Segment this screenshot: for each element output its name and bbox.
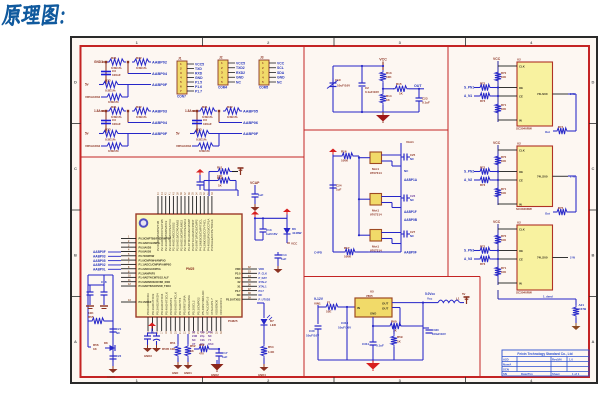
- resistor R52 labels: [190, 344, 196, 353]
- page title 原理图:: [2, 5, 66, 26]
- svg-text:GND3: GND3: [144, 354, 152, 358]
- net labels region D col2: [404, 210, 418, 222]
- region divider horizontal middle y130: [304, 129, 448, 131]
- svg-text:C310: C310: [341, 321, 349, 325]
- svg-text:C22: C22: [116, 354, 122, 358]
- svg-text:OUT: OUT: [382, 302, 389, 306]
- svg-text:9707314: 9707314: [370, 171, 382, 175]
- capacitor C31 labels: [338, 321, 351, 330]
- svg-text:AABP0F: AABP0F: [152, 132, 168, 136]
- capacitor C14 labels: [281, 253, 287, 261]
- C18 label: [101, 280, 107, 284]
- svg-text:IN: IN: [519, 281, 522, 285]
- svg-text:C1C: C1C: [335, 78, 342, 82]
- svg-text:C: C: [592, 166, 595, 171]
- svg-text:OE: OE: [519, 249, 523, 253]
- svg-text:P5.3/CMPO2: P5.3/CMPO2: [196, 297, 200, 315]
- IC U4 body: [510, 221, 575, 295]
- svg-text:R73: R73: [480, 262, 486, 266]
- MCU U1 bottom pin names: [146, 290, 223, 315]
- svg-text:SC3040RW: SC3040RW: [516, 207, 532, 211]
- svg-text:P0.4/ADV4/AMP0-: P0.4/ADV4/AMP0-: [139, 241, 161, 245]
- capacitor C7: [252, 185, 264, 204]
- svg-text:R12: R12: [217, 176, 223, 180]
- input resistor A U4: [474, 245, 498, 254]
- svg-text:R33: R33: [105, 79, 111, 83]
- svg-text:R1c: R1c: [208, 330, 213, 334]
- resistor R51 labels: [170, 341, 176, 351]
- svg-text:CLK: CLK: [519, 64, 525, 68]
- svg-text:AABP0B: AABP0B: [404, 218, 418, 222]
- capacitor C32: [362, 342, 384, 362]
- LED D7 labels: [270, 319, 277, 327]
- svg-text:OSC: OSC: [208, 342, 214, 346]
- ground below R76: [572, 323, 581, 330]
- svg-text:P0.0/AD0/RXD3: P0.0/AD0/RXD3: [146, 293, 150, 315]
- svg-text:LED: LED: [270, 323, 277, 327]
- svg-text:1uF: 1uF: [222, 355, 228, 359]
- svg-text:VIN1: VIN1: [314, 302, 321, 306]
- wire left cluster: [88, 275, 113, 362]
- svg-text:P1.2/ADC2/A0P0A: P1.2/ADC2/A0P0A: [139, 267, 161, 271]
- svg-text:VCC: VCC: [493, 220, 501, 224]
- svg-text:GND: GND: [172, 371, 178, 375]
- svg-text:S_PN2: S_PN2: [464, 170, 474, 174]
- svg-text:COM5: COM5: [259, 86, 268, 90]
- MCU U1 right pin numbers: [248, 266, 251, 299]
- svg-text:A_N3: A_N3: [464, 257, 472, 261]
- title block company text: [517, 352, 572, 356]
- border zone labels: [74, 40, 595, 383]
- LED D7 arrows: [267, 315, 272, 320]
- crystal X2 label cluster: [192, 330, 214, 346]
- svg-text:NC: NC: [116, 331, 120, 335]
- wire loop region C: [333, 65, 419, 113]
- capacitor C23 labels: [422, 97, 430, 105]
- svg-text:A: A: [592, 339, 595, 344]
- svg-text:C37B: C37B: [579, 307, 588, 311]
- ground below R52: [184, 362, 193, 375]
- svg-text:P1M25: P1M25: [228, 319, 238, 323]
- resistor pullup B U4: [495, 265, 507, 278]
- VCC label U4: [493, 220, 501, 285]
- svg-text:470: 470: [199, 352, 204, 356]
- MCU U1 body: [136, 214, 242, 317]
- svg-text:AABP04: AABP04: [152, 72, 168, 76]
- svg-text:AABP0F: AABP0F: [152, 83, 168, 87]
- svg-text:D: D: [74, 80, 77, 85]
- capacitor C33: [423, 328, 446, 336]
- resistor pullup A U2: [495, 70, 507, 83]
- svg-text:GND: GND: [370, 312, 376, 316]
- svg-text:VCC: VCC: [379, 58, 387, 62]
- connector J3: [259, 56, 276, 90]
- connector J3 net labels: [277, 61, 285, 84]
- VCC rail region C: [382, 62, 384, 71]
- capacitor C2: [359, 83, 380, 94]
- resistor R53: [194, 346, 216, 352]
- svg-text:Rev5/N: Rev5/N: [552, 358, 561, 362]
- svg-text:A: A: [74, 339, 77, 344]
- svg-text:U2: U2: [517, 58, 521, 62]
- MCU U1 bottom pin numbers: [147, 331, 223, 334]
- svg-text:1.0K: 1.0K: [268, 350, 275, 354]
- input resistor B U4: [474, 256, 498, 266]
- power ground symbol: [366, 360, 380, 371]
- resistor pullup A U4: [495, 233, 507, 246]
- svg-text:U2: U2: [517, 221, 521, 225]
- svg-text:P0.7/CMP0W: P0.7/CMP0W: [139, 254, 155, 258]
- svg-text:0.1uF: 0.1uF: [376, 344, 384, 348]
- resistor R14 vertical: [380, 92, 392, 112]
- svg-text:VCC/AVCC1: VCC/AVCC1: [219, 298, 223, 315]
- svg-text:D: D: [592, 80, 595, 85]
- svg-text:B: B: [74, 253, 77, 258]
- svg-text:J2: J2: [219, 56, 223, 60]
- VAA label region D: [406, 140, 414, 144]
- ground bottom left cluster: [107, 366, 118, 379]
- svg-text:IN: IN: [519, 202, 522, 206]
- svg-text:A2D: A2D: [503, 358, 509, 362]
- VCC net label right of MCU: [287, 242, 298, 246]
- 5V labels: [425, 292, 435, 301]
- svg-text:P_UTXD2: P_UTXD2: [259, 297, 271, 301]
- svg-text:NC: NC: [410, 198, 414, 202]
- capacitor C22: [110, 351, 122, 366]
- svg-text:AABP02: AABP02: [152, 61, 167, 65]
- svg-text:PM25: PM25: [186, 267, 195, 271]
- wire LED column: [257, 303, 264, 318]
- VCC label U2: [493, 57, 501, 122]
- resistor R54 vertical: [261, 344, 267, 364]
- svg-text:U5: U5: [370, 290, 374, 294]
- svg-text:P0.5/AD5/T3: P0.5/AD5/T3: [169, 297, 173, 315]
- svg-text:5.0Vcc: 5.0Vcc: [425, 292, 435, 296]
- svg-text:R31: R31: [202, 105, 208, 109]
- svg-text:P0.4/AD4/T3CLK: P0.4/AD4/T3CLK: [164, 292, 168, 315]
- svg-text:X2: X2: [237, 280, 241, 284]
- title block frame: [502, 350, 589, 376]
- svg-text:X1: X1: [237, 284, 241, 288]
- svg-text:GND3: GND3: [94, 60, 103, 64]
- svg-text:74LS00: 74LS00: [537, 92, 548, 96]
- svg-text:1uF: 1uF: [281, 257, 287, 261]
- transistor Q3 cell: [358, 230, 401, 253]
- VCC label region C: [379, 58, 387, 62]
- VCC label U3: [493, 141, 501, 205]
- svg-text:P1.3/AMP0P3: P1.3/AMP0P3: [139, 271, 156, 275]
- resistor R51 vertical: [175, 334, 181, 362]
- outer black border: [71, 37, 597, 383]
- input resistor A U3: [474, 166, 498, 175]
- diode D6: [284, 228, 291, 234]
- svg-text:10K: 10K: [501, 191, 506, 195]
- svg-text:S_PN3: S_PN3: [464, 249, 474, 253]
- bottom wire region D: [314, 251, 344, 255]
- resistor R61 vertical: [391, 325, 397, 360]
- svg-text:R54: R54: [268, 345, 274, 349]
- svg-text:P5.2/SCL2: P5.2/SCL2: [192, 300, 196, 315]
- svg-text:NC: NC: [208, 334, 212, 338]
- svg-text:24M: 24M: [192, 334, 197, 338]
- input resistor A U2: [474, 82, 498, 91]
- capacitor C23: [416, 89, 423, 112]
- svg-text:VAA1: VAA1: [406, 140, 414, 144]
- diode D8: [104, 341, 115, 351]
- resistor pullup A U3: [495, 154, 507, 167]
- svg-text:P_CLK: P_CLK: [259, 272, 268, 276]
- filter block F1 (R31,R32,R33,R34,C3): [85, 56, 168, 104]
- svg-text:P1.7: P1.7: [195, 89, 202, 93]
- svg-text:10K: 10K: [501, 270, 506, 274]
- filter block F3 (R39,R40,R41,R42,C5): [176, 105, 259, 153]
- svg-text:AABP1A: AABP1A: [404, 178, 418, 182]
- IC U2 body: [510, 58, 575, 131]
- svg-text:AABP0F: AABP0F: [404, 251, 417, 255]
- svg-text:0.5E1%: 0.5E1%: [136, 66, 147, 70]
- svg-text:0.5E1%: 0.5E1%: [136, 115, 147, 119]
- svg-text:P1.6/ADT6/SCDV6R_TXD3: P1.6/ADT6/SCDV6R_TXD3: [139, 284, 172, 288]
- svg-text:P1.4/ADT4/CMT0/1S.ALF: P1.4/ADT4/CMT0/1S.ALF: [139, 276, 170, 280]
- power region top border y276.5: [304, 276, 480, 278]
- svg-text:VR5A1R34: VR5A1R34: [176, 144, 192, 148]
- svg-text:P3.0: P3.0: [235, 272, 241, 276]
- sensor MIC1 labels: [335, 78, 350, 88]
- resistor R61 labels: [397, 335, 403, 344]
- border zone ticks: [71, 37, 597, 383]
- svg-text:P5.0/RST2/NA: P5.0/RST2/NA: [183, 295, 187, 315]
- output label D5: [579, 303, 588, 311]
- resistor R15: [393, 82, 409, 96]
- svg-text:A_N2: A_N2: [464, 178, 472, 182]
- regulator U5 body: [355, 298, 392, 317]
- svg-text:AABP03: AABP03: [152, 110, 167, 114]
- svg-text:AABP04: AABP04: [152, 121, 168, 125]
- svg-text:NC: NC: [259, 293, 263, 297]
- svg-text:GND: GND: [236, 76, 244, 80]
- junction dots U3: [497, 170, 499, 181]
- svg-text:Y1: Y1: [208, 338, 212, 342]
- regulator output wires: [392, 302, 424, 327]
- svg-text:10E: 10E: [326, 310, 331, 314]
- svg-text:IN: IN: [357, 306, 360, 310]
- ground below C14: [274, 266, 283, 273]
- svg-text:4148W: 4148W: [292, 231, 302, 235]
- diode D6 labels: [292, 227, 302, 235]
- connector J1: [177, 57, 194, 99]
- svg-text:L1: L1: [456, 297, 460, 301]
- resistor R16 labels: [341, 150, 349, 163]
- svg-text:P1.1/ADC1/CMP0P/AMP0O: P1.1/ADC1/CMP0P/AMP0O: [139, 263, 172, 267]
- wire reset network: [204, 172, 238, 197]
- svg-text:0.1uF: 0.1uF: [422, 101, 430, 105]
- MCU U1 left pin numbers: [128, 236, 131, 287]
- svg-text:R31: R31: [111, 105, 117, 109]
- svg-text:C1k: C1k: [200, 330, 205, 334]
- svg-text:10uF/16V: 10uF/16V: [337, 84, 350, 88]
- inter-stage wire U3-U4: [568, 176, 576, 212]
- transistor Q2 cell: [358, 194, 401, 217]
- output wire below U4: [498, 290, 576, 299]
- wire output region C: [383, 88, 394, 90]
- resistor R54 labels: [268, 345, 275, 354]
- svg-text:P5.4/RST/MCLKO: P5.4/RST/MCLKO: [201, 290, 205, 315]
- connector J1 net labels: [195, 62, 204, 93]
- VCAP label: [250, 181, 260, 185]
- svg-text:P0.7/AD7/T4: P0.7/AD7/T4: [178, 297, 182, 315]
- net label stack left of MCU: [93, 250, 121, 271]
- svg-text:9707314: 9707314: [370, 213, 382, 217]
- svg-text:CLK: CLK: [519, 227, 525, 231]
- svg-text:Sheet: Sheet: [552, 372, 560, 376]
- svg-text:R60: R60: [391, 320, 397, 324]
- svg-text:1uF/16V: 1uF/16V: [266, 232, 278, 236]
- input node wire: [318, 305, 325, 307]
- svg-text:F1: F1: [327, 301, 331, 305]
- svg-text:R32: R32: [136, 56, 142, 60]
- svg-text:5v: 5v: [85, 132, 89, 136]
- svg-text:XT: XT: [192, 342, 196, 346]
- svg-text:R72: R72: [480, 82, 486, 86]
- svg-text:VDD: VDD: [235, 267, 241, 271]
- MCU U1 left pin name P3.1: [121, 299, 152, 304]
- svg-text:74LS00: 74LS00: [537, 174, 548, 178]
- inter-stage resistor R74: [545, 125, 569, 134]
- svg-text:XTALI1/P1.7: XTALI1/P1.7: [210, 298, 214, 315]
- connector J2: [218, 56, 235, 90]
- svg-text:R11: R11: [217, 166, 223, 170]
- connector J2 net labels: [236, 61, 245, 84]
- svg-text:0.5E1%: 0.5E1%: [105, 89, 116, 93]
- MCU U1 top pin stubs: [158, 196, 212, 214]
- inductor L1: [423, 297, 460, 303]
- svg-text:P5.1/SDA2/NA: P5.1/SDA2/NA: [187, 295, 191, 315]
- svg-text:R16: R16: [341, 150, 347, 154]
- svg-text:P3.2/UTXD2: P3.2/UTXD2: [226, 297, 241, 301]
- svg-text:RXD2: RXD2: [236, 71, 245, 75]
- svg-text:1 of 1: 1 of 1: [572, 372, 580, 376]
- svg-text:100uF/16V: 100uF/16V: [432, 332, 446, 336]
- svg-text:R72: R72: [480, 245, 486, 249]
- svg-text:R31: R31: [111, 56, 117, 60]
- svg-text:NC: NC: [236, 80, 241, 84]
- svg-text:OUT: OUT: [382, 307, 389, 311]
- svg-text:0.5E1%: 0.5E1%: [108, 100, 119, 104]
- svg-text:P_DAT: P_DAT: [259, 276, 268, 280]
- svg-text:74LS00: 74LS00: [537, 256, 548, 260]
- resistor R52 vertical: [185, 334, 191, 362]
- svg-text:R32: R32: [227, 105, 233, 109]
- svg-text:C2k: C2k: [200, 338, 205, 342]
- VCC symbol right of MCU (2): [283, 209, 291, 215]
- VCC symbol region D: [329, 149, 337, 155]
- wire base rail region D: [358, 156, 360, 236]
- svg-text:C30: C30: [309, 329, 315, 333]
- svg-text:OSC: OSC: [235, 276, 241, 280]
- region divider vertical x448: [447, 46, 449, 277]
- svg-text:7805: 7805: [366, 294, 373, 298]
- regulator U5 pin names: [357, 302, 389, 316]
- svg-text:VCAP: VCAP: [250, 181, 260, 185]
- svg-text:VR5A1R34: VR5A1R34: [85, 95, 101, 99]
- svg-text:100K: 100K: [344, 255, 352, 259]
- svg-text:RXD: RXD: [195, 71, 203, 75]
- svg-text:R17: R17: [344, 246, 350, 250]
- svg-text:GND2: GND2: [211, 373, 219, 377]
- resistor R56: [88, 321, 99, 351]
- capacitor C17: [216, 348, 223, 364]
- capacitor C30 labels: [306, 329, 319, 338]
- svg-text:GND1: GND1: [184, 371, 192, 375]
- svg-text:5v: 5v: [176, 132, 180, 136]
- svg-text:OE: OE: [519, 86, 523, 90]
- svg-text:0.5E1%: 0.5E1%: [105, 138, 116, 142]
- MCU U1 left pin names: [139, 237, 172, 289]
- reset supply VCC symbol: [196, 169, 204, 175]
- svg-text:CLK: CLK: [519, 148, 525, 152]
- svg-text:TXD: TXD: [195, 67, 202, 71]
- capacitor C13: [255, 217, 267, 240]
- svg-text:NC: NC: [410, 234, 414, 238]
- capacitor C27: [401, 230, 416, 238]
- svg-text:A_N1: A_N1: [464, 94, 472, 98]
- R50 label: [162, 347, 170, 351]
- svg-text:Out: Out: [545, 212, 550, 216]
- wire below-MCU supply: [147, 329, 157, 334]
- OUT net label: [414, 84, 422, 88]
- power flag above MCU: [238, 168, 244, 175]
- svg-text:XTALO2/P1.6: XTALO2/P1.6: [205, 296, 209, 315]
- svg-text:P0.1/AD1/TXD3: P0.1/AD1/TXD3: [151, 293, 155, 315]
- svg-text:VCC: VCC: [291, 242, 298, 246]
- capacitor C24: [330, 184, 342, 253]
- capacitor C20: [90, 275, 108, 305]
- svg-text:0.5E1%: 0.5E1%: [227, 115, 238, 119]
- svg-text:100nF: 100nF: [112, 122, 121, 126]
- resistor pullup B U2: [495, 102, 507, 115]
- svg-text:P1.5/ADM5/SCDV6R_RXD: P1.5/ADM5/SCDV6R_RXD: [139, 280, 171, 284]
- svg-text:10K: 10K: [501, 107, 506, 111]
- svg-text:1_deed: 1_deed: [543, 295, 553, 299]
- svg-text:5v: 5v: [85, 83, 89, 87]
- resistor R53 labels: [199, 343, 205, 356]
- svg-text:GND: GND: [277, 76, 285, 80]
- MCU corner label: [228, 319, 238, 323]
- svg-text:P4.5/ALE/CCP1/T0CLK: P4.5/ALE/CCP1/T0CLK: [210, 219, 214, 251]
- wire rails U4: [498, 229, 510, 283]
- ground region C: [376, 112, 390, 123]
- svg-text:R51: R51: [170, 341, 176, 345]
- svg-text:S_PN1: S_PN1: [464, 86, 474, 90]
- input labels 9-12V: [314, 297, 324, 306]
- capacitor C17 labels: [222, 351, 228, 359]
- svg-text:P0.6/AD6/T4CLK: P0.6/AD6/T4CLK: [174, 292, 178, 315]
- svg-text:NC: NC: [277, 80, 282, 84]
- svg-text:XTAL2: XTAL2: [259, 280, 268, 284]
- svg-text:R59: R59: [397, 335, 403, 339]
- capacitor C14: [275, 252, 282, 266]
- input label A U4: [464, 249, 474, 253]
- region divider vertical x304: [303, 46, 305, 377]
- svg-text:1uF: 1uF: [336, 188, 342, 192]
- svg-text:NC: NC: [192, 338, 196, 342]
- IC U3 body: [510, 142, 575, 212]
- svg-text:10K: 10K: [501, 159, 506, 163]
- svg-text:P1.5: P1.5: [195, 80, 202, 84]
- capacitor C19: [87, 285, 94, 305]
- wire VCC rail region D: [332, 155, 334, 253]
- svg-text:1uF: 1uF: [258, 193, 264, 197]
